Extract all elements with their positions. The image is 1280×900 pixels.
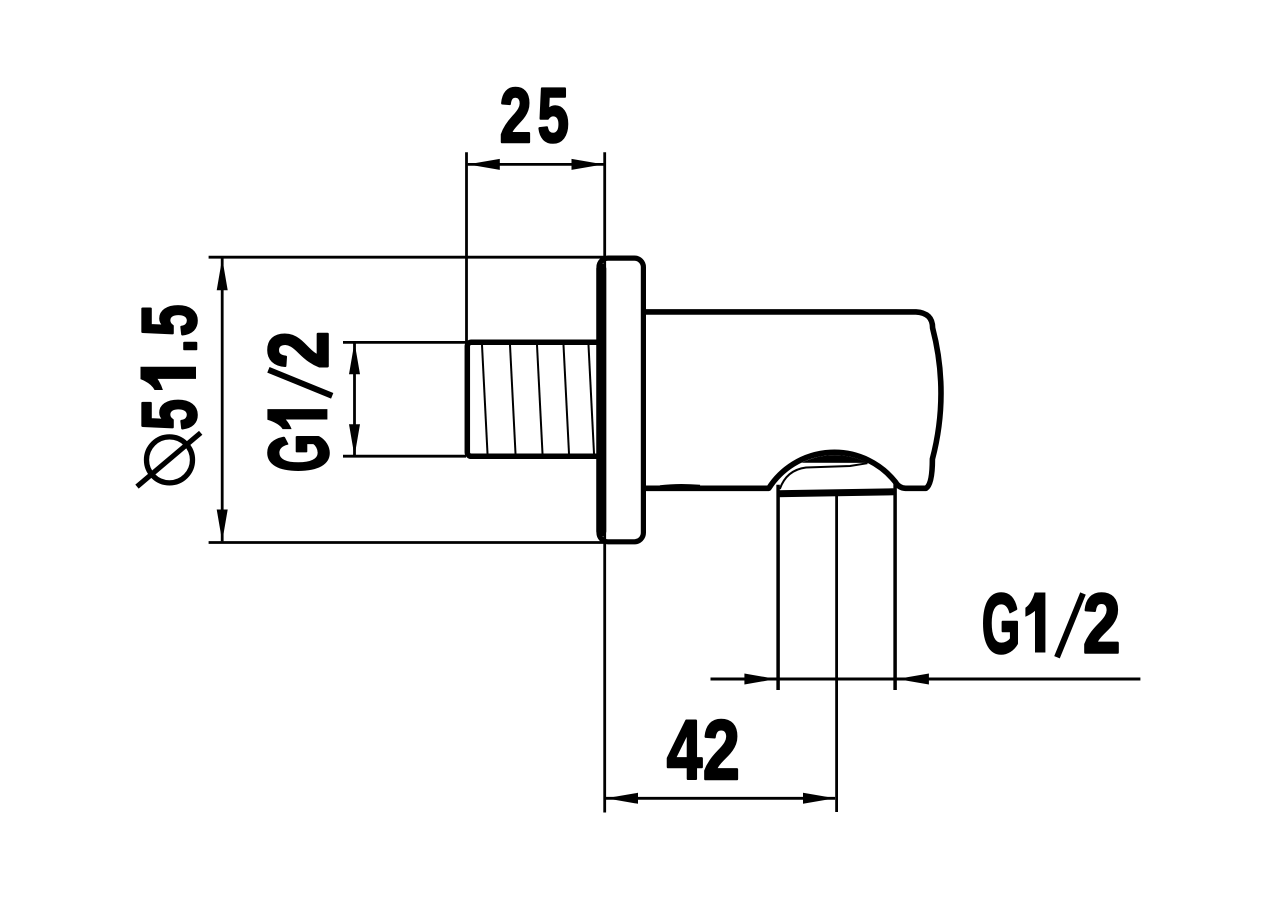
label 25	[500, 74, 532, 159]
thread hatch lines	[482, 345, 594, 454]
outlet center line	[835, 496, 838, 812]
svg-text:2: 2	[500, 74, 532, 159]
arrowhead 25 left	[468, 159, 500, 170]
svg-text:2: 2	[1083, 578, 1121, 672]
outlet pipe left edge	[776, 485, 780, 690]
arrowhead 42 left	[606, 793, 638, 804]
dimension line G1/2 right	[711, 678, 1141, 681]
arrowhead G1/2 right pointing left	[897, 674, 929, 685]
svg-text:G: G	[982, 577, 1021, 671]
arrowhead 25 right	[572, 159, 604, 170]
svg-text:4: 4	[667, 702, 703, 797]
arrowhead G1/2 right pointing right	[744, 674, 776, 685]
svg-text:5: 5	[127, 399, 213, 430]
label 42	[667, 702, 703, 797]
dimension line G1/2 left	[353, 342, 356, 456]
wire wall pipe top line	[209, 256, 604, 259]
threaded inlet pipe	[467, 342, 601, 456]
label G1/2 right	[982, 577, 1021, 671]
escutcheon flange plate	[599, 258, 643, 542]
svg-text:2: 2	[703, 703, 740, 797]
arrowhead 51.5 down	[217, 510, 228, 542]
svg-text:.: .	[127, 339, 213, 352]
arrowhead 51.5 up	[217, 258, 228, 290]
outlet pipe right edge	[893, 482, 897, 690]
body bottom parting-line bump	[660, 485, 700, 486]
escutcheon thick front band	[596, 269, 606, 532]
arrowhead G1/2 left up	[349, 342, 360, 374]
svg-text:2: 2	[252, 331, 346, 369]
label diameter 51.5	[127, 305, 214, 487]
dimension line 25	[468, 163, 604, 166]
main body outline	[637, 312, 941, 488]
extension line shared right (25 / 42)	[603, 152, 606, 812]
saddle far rim thin line	[780, 463, 868, 489]
svg-text:G: G	[252, 434, 346, 473]
extension line G1/2 left top	[343, 341, 466, 344]
extension line G1/2 left bottom	[343, 455, 466, 458]
svg-text:5: 5	[128, 305, 213, 337]
arrowhead G1/2 left down	[349, 424, 360, 456]
label G1/2 left	[252, 331, 346, 472]
dimension line 42	[606, 797, 835, 800]
saddle crescent fill	[802, 455, 869, 463]
dimension line diameter 51.5	[221, 258, 224, 541]
svg-text:5: 5	[538, 73, 569, 159]
outlet top thick band	[777, 492, 894, 494]
extension line 25 left	[465, 152, 468, 345]
wire wall pipe bottom line	[209, 541, 604, 544]
arrowhead 42 right	[803, 793, 835, 804]
